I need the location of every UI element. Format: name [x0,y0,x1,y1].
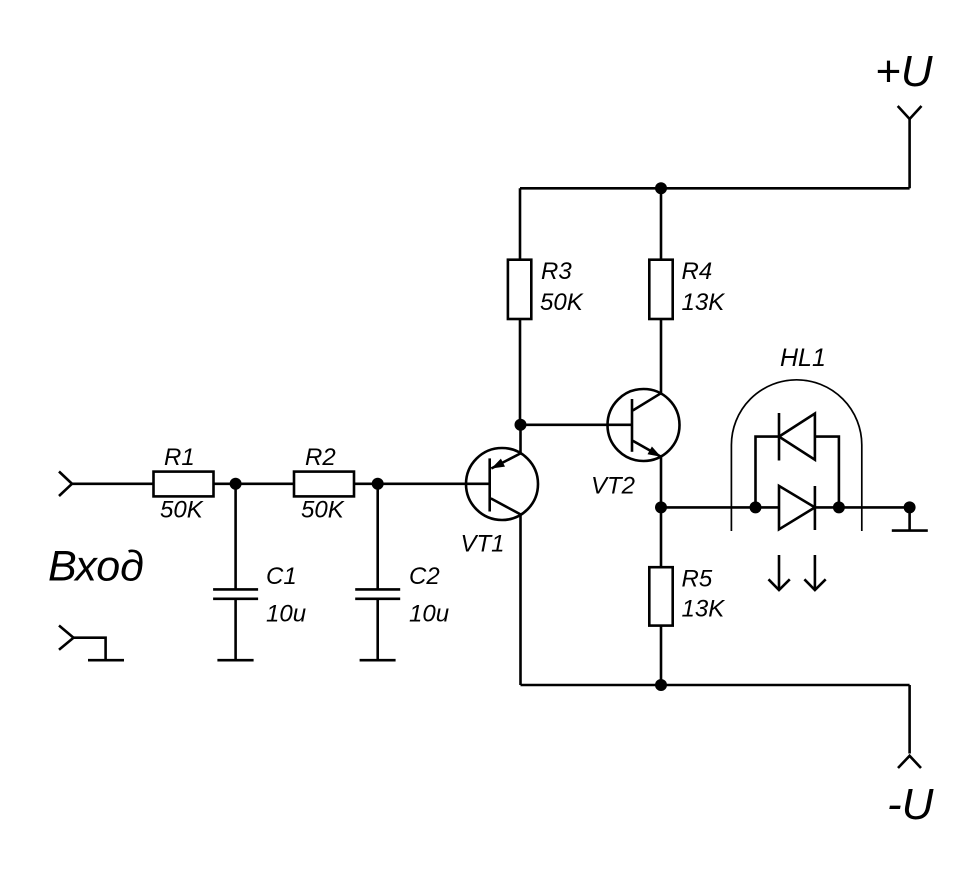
svg-text:-U: -U [887,780,934,829]
wire right ground stem [908,507,911,529]
transistor VT2 [608,389,680,461]
node A dot [515,419,527,431]
svg-text:R1: R1 [164,444,195,471]
svg-text:R2: R2 [305,444,336,471]
wire C2 bottom [376,599,379,659]
svg-text:C2: C2 [409,563,440,590]
svg-text:R3: R3 [541,258,572,285]
wire input to R1 [72,482,154,485]
wire +U top rail [520,187,910,190]
svg-text:Вход: Вход [48,543,144,591]
chassis bar input2 [88,659,124,662]
wire C1 bottom [234,599,237,659]
node dot top rail [655,182,667,194]
terminal +U fork [898,106,922,119]
svg-text:VT1: VT1 [461,531,505,558]
wire VT1 emitter up to node A [519,425,522,454]
terminal -U fork [898,756,921,768]
transistor VT1 [466,448,538,520]
LED diode VD down (points right) [779,486,815,529]
svg-text:HL1: HL1 [780,344,826,372]
node dot LED right [833,501,845,513]
svg-text:VT2: VT2 [591,473,635,500]
svg-text:13K: 13K [682,596,726,623]
wire upper diode left leg [756,437,780,508]
node dot bottom rail [655,679,667,691]
wire upper diode right leg [815,437,839,508]
resistor R3 [508,260,531,319]
node dot R2-VT1 [372,478,384,490]
svg-text:13K: 13K [682,289,726,316]
wire node B to right ground [661,506,910,509]
svg-text:50K: 50K [301,497,345,524]
wire R5 top stem [660,507,663,567]
wire +U terminal stem [908,119,911,188]
svg-text:C1: C1 [266,563,297,590]
resistor R2 [294,472,354,497]
wire input2 [74,638,106,659]
svg-text:R4: R4 [682,258,713,285]
wire VT1 collector down to -U rail [519,514,522,685]
wire -U bottom rail [521,684,910,687]
svg-text:50K: 50K [160,497,204,524]
wire R1 to R2 [214,482,295,485]
LED envelope HL1 [731,380,861,531]
resistor R4 [649,260,672,319]
svg-text:R5: R5 [682,566,713,593]
node B dot [655,501,667,513]
svg-text:10u: 10u [266,601,306,628]
resistor R5 [649,567,672,625]
resistor R1 [154,472,214,497]
input terminal X1 [59,472,72,497]
wire R3 top stem [519,188,522,259]
wire R4 bottom stem [660,319,663,393]
wire VT2 emitter down to node B [660,457,663,508]
light arrow 1 [778,555,781,589]
input terminal X2 [59,626,74,650]
wire R3 bottom stem [519,319,522,425]
wire C1 top [234,484,237,589]
node dot LED left [750,501,762,513]
node dot right ground [904,501,916,513]
chassis bar below C2 [360,659,396,662]
chassis bar below C1 [217,659,253,662]
svg-text:10u: 10u [409,601,449,628]
wire R2 to VT1 base [354,482,490,485]
light arrow 2 [814,555,817,589]
ground bar right [892,529,928,532]
wire -U terminal stem [908,685,911,754]
wire C2 top [376,484,379,589]
svg-text:50K: 50K [540,289,584,316]
LED diode VD up (points left) [778,413,781,461]
capacitor C2 [355,588,400,591]
capacitor C1 [213,588,258,591]
node dot R1-R2 [230,478,242,490]
wire R4 top stem [660,188,663,259]
wire node A to VT2 base [520,423,632,426]
svg-text:+U: +U [875,47,933,96]
wire R5 bottom stem [660,626,663,685]
